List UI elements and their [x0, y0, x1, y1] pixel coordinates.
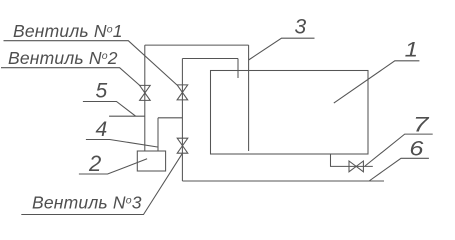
- wire: left pipe vertical x=145: [144, 45, 146, 151]
- wire: branch horizontal y=117.8: [158, 117, 182, 119]
- wire: second pipe horizontal y=58: [182, 58, 238, 60]
- wire: pipe B vertical into tank x=238: [237, 59, 239, 79]
- svg-text:Вентиль No2: Вентиль No2: [8, 48, 118, 68]
- valve Вентиль №1 (right vertical bowtie): [177, 85, 188, 100]
- wire: right pipe vertical x=182: [181, 59, 183, 182]
- svg-text:3: 3: [295, 15, 307, 38]
- leader line for 7: [365, 134, 433, 166]
- svg-text:Вентиль No1: Вентиль No1: [13, 21, 123, 41]
- leader line for Вентиль №2: [1, 68, 140, 86]
- leader line for 6: [369, 158, 429, 181]
- svg-text:4: 4: [96, 118, 108, 141]
- svg-text:6: 6: [409, 136, 423, 160]
- valve Вентиль №3 (lower vertical bowtie): [177, 138, 188, 153]
- wire: branch vertical x=158: [157, 118, 159, 151]
- leader line for Вентиль №1: [4, 41, 178, 85]
- leader line for 1: [334, 61, 420, 103]
- leader line for 5: [83, 102, 145, 117]
- svg-text:Вентиль No3: Вентиль No3: [32, 193, 142, 213]
- wire: pipe A vertical into tank x=248.6: [248, 45, 250, 151]
- wire: top pipe horizontal y=44.5: [145, 44, 249, 46]
- label 7: [413, 114, 430, 137]
- pump 2 (small rectangle): [137, 151, 165, 171]
- valve Вентиль №2 (left vertical bowtie): [140, 85, 151, 100]
- leader line for 2: [79, 159, 147, 174]
- wire: drain pipe from tank bottom: [331, 154, 373, 166]
- svg-text:2: 2: [88, 151, 101, 176]
- valve 7 (horizontal drain bowtie): [349, 161, 363, 172]
- label 1: [405, 38, 418, 61]
- leader line for 3: [249, 38, 315, 60]
- svg-text:1: 1: [405, 38, 418, 61]
- svg-text:7: 7: [413, 114, 430, 137]
- label 6: [409, 136, 423, 160]
- tank 1 (large rectangle): [211, 71, 369, 155]
- svg-text:5: 5: [96, 80, 108, 103]
- wire: bottom pipe horizontal y=181: [182, 180, 384, 182]
- leader line for Вентиль №3: [21, 153, 182, 214]
- leader line for 4: [86, 140, 158, 148]
